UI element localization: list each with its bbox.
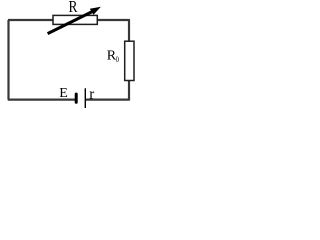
svg-text:0: 0 [116, 54, 120, 64]
wire: bottom-right segment from battery [85, 98, 129, 100]
wire: left vertical [7, 20, 9, 100]
battery negative plate (short thick) [75, 93, 78, 104]
resistor R0 (vertical box) [125, 41, 134, 80]
rheostat arrowhead [90, 7, 101, 15]
wire: right vertical above R0 [128, 19, 130, 41]
svg-text:E: E [59, 86, 68, 101]
wire: top-left segment to rheostat [8, 19, 54, 21]
svg-text:r: r [89, 87, 94, 103]
battery positive plate (tall thin) [84, 88, 86, 108]
rheostat arrow shaft [48, 10, 96, 34]
wire: right vertical below R0 [128, 80, 130, 100]
wire: top-right segment from rheostat [97, 19, 130, 21]
wire: bottom-left segment to battery [8, 98, 75, 100]
svg-text:R: R [69, 0, 79, 16]
resistor R (rheostat box) [53, 15, 97, 24]
